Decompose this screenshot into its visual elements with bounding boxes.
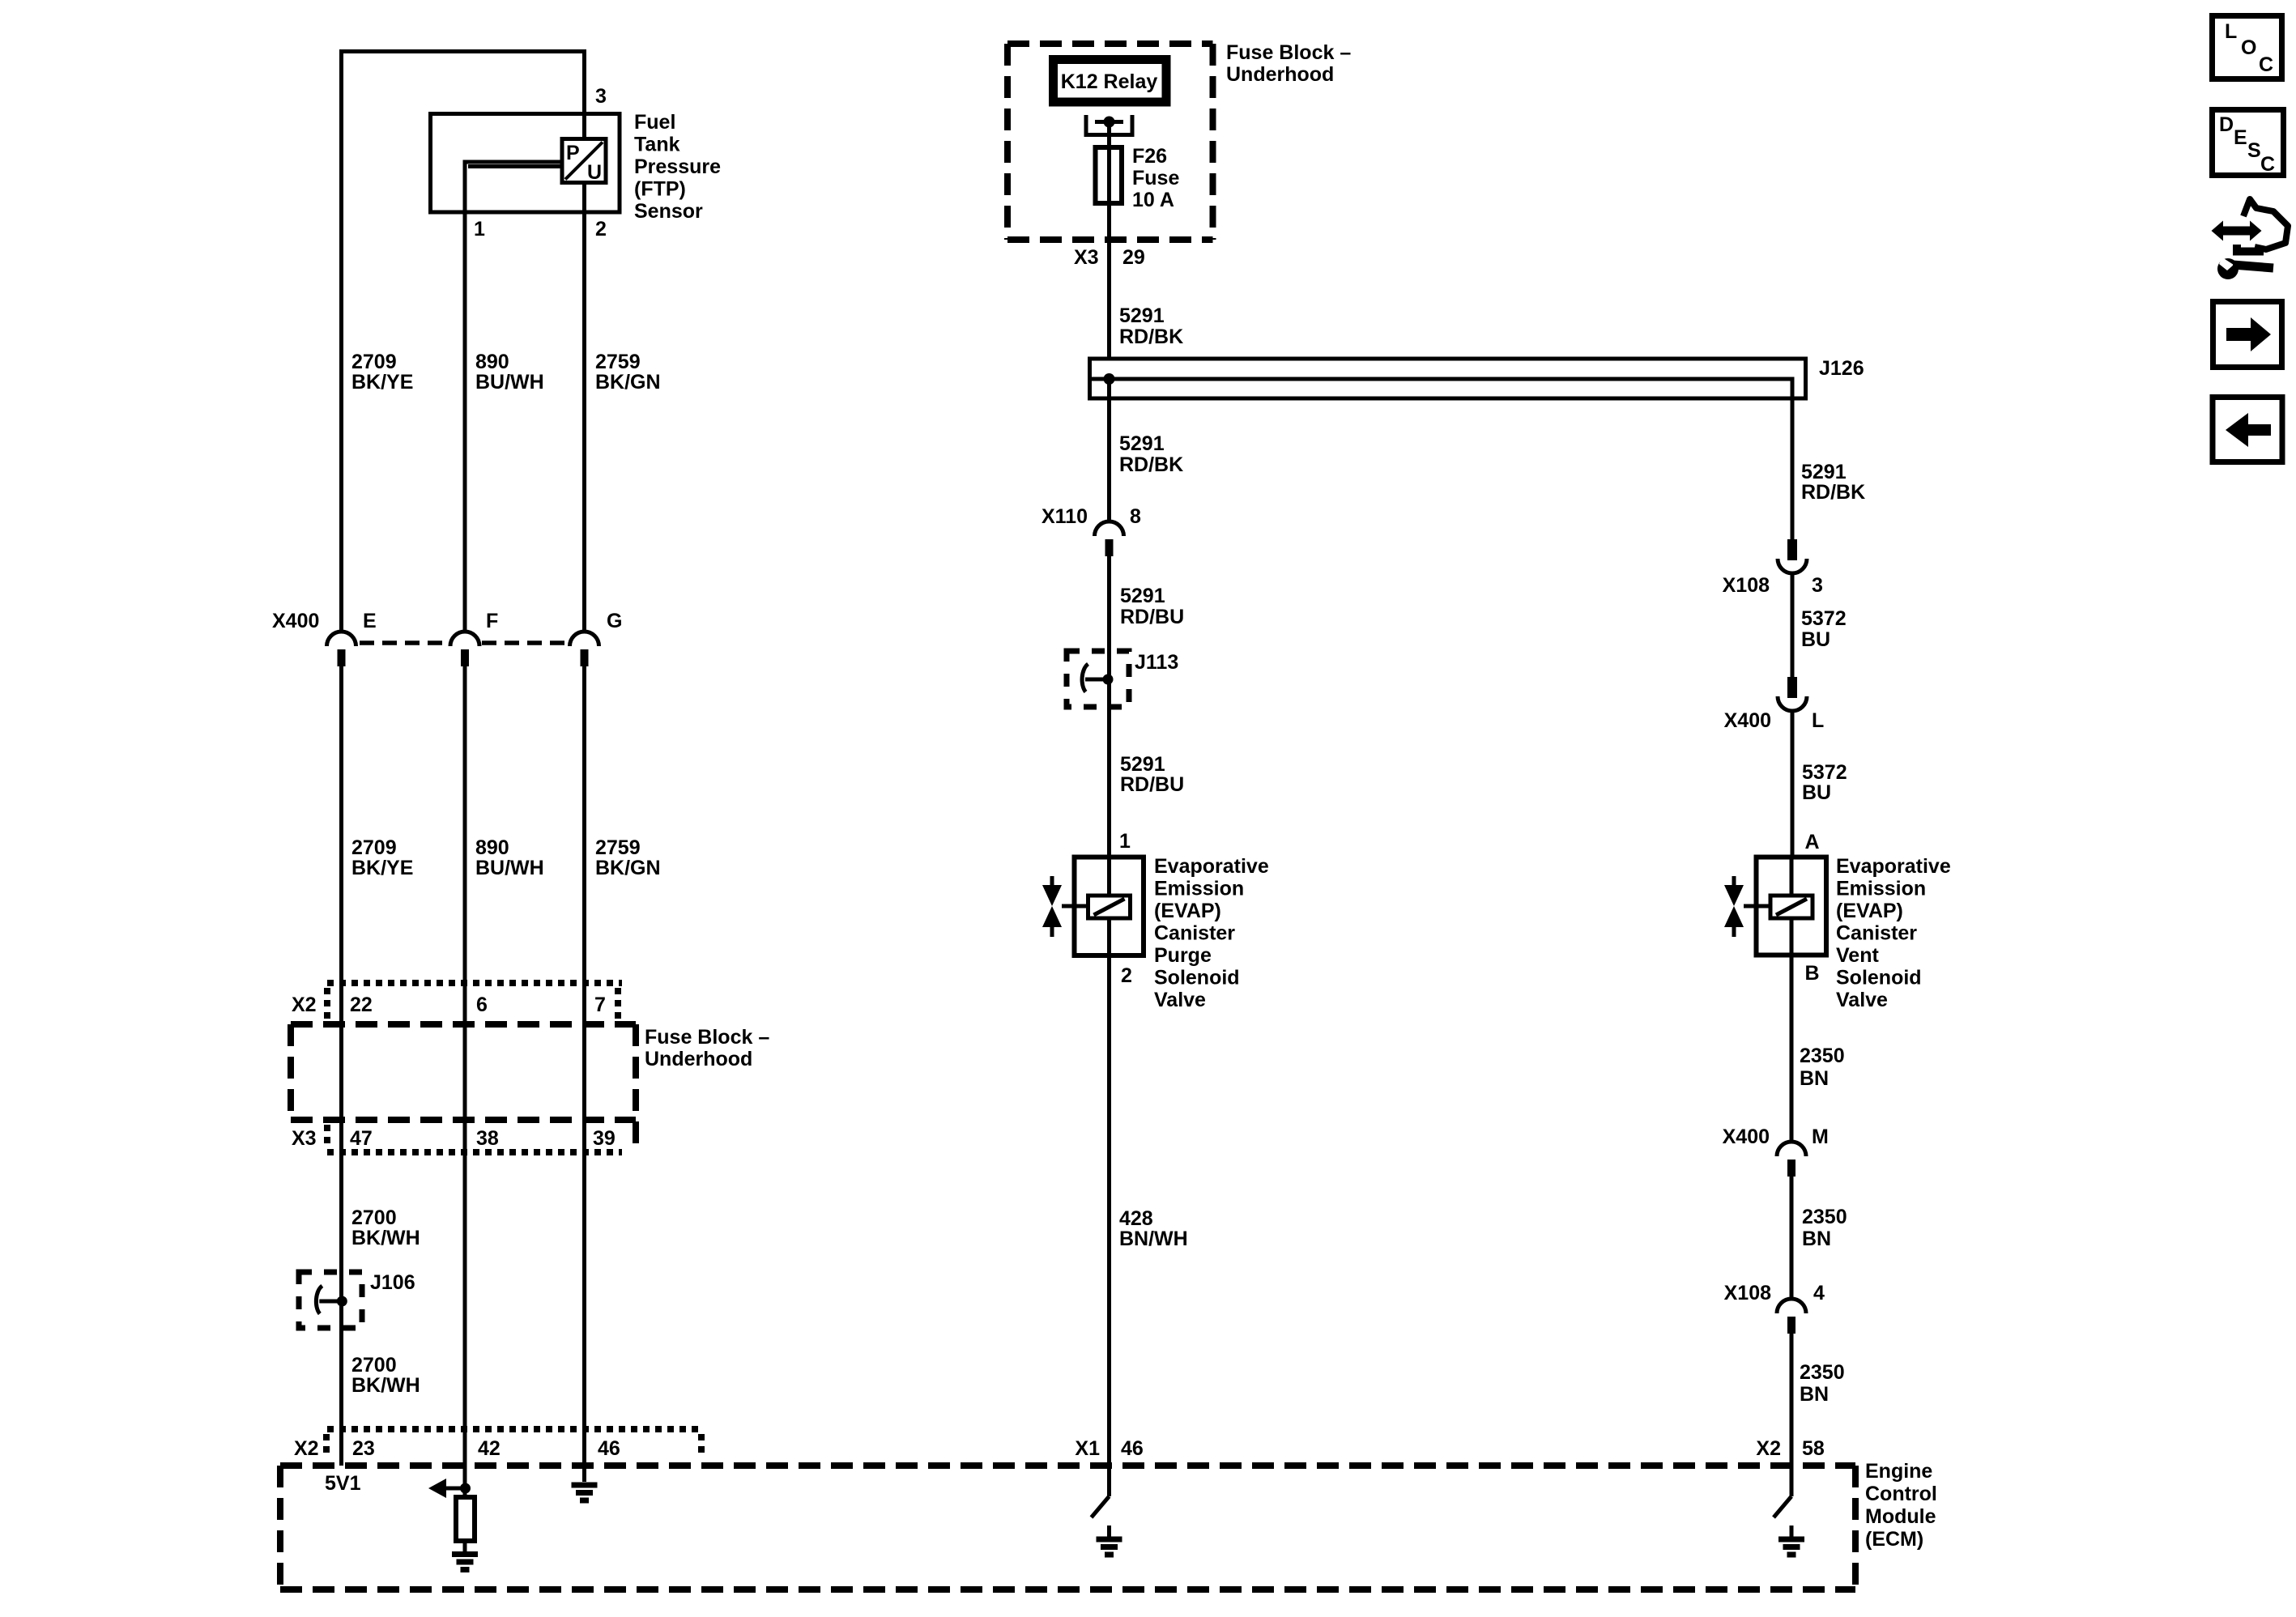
svg-text:(ECM): (ECM) xyxy=(1865,1528,1923,1551)
svg-text:Valve: Valve xyxy=(1154,989,1206,1011)
svg-text:BN: BN xyxy=(1800,1067,1829,1090)
svg-text:Solenoid: Solenoid xyxy=(1154,967,1240,989)
svg-text:Fuse Block –: Fuse Block – xyxy=(1226,41,1351,64)
svg-text:2350: 2350 xyxy=(1802,1206,1847,1228)
svg-text:O: O xyxy=(2241,36,2256,59)
svg-text:Module: Module xyxy=(1865,1505,1936,1528)
svg-text:J106: J106 xyxy=(370,1271,415,1294)
svg-text:22: 22 xyxy=(350,994,373,1016)
svg-text:G: G xyxy=(607,610,622,632)
svg-text:X110: X110 xyxy=(1042,505,1088,528)
svg-text:2709: 2709 xyxy=(351,836,397,859)
svg-text:Solenoid: Solenoid xyxy=(1836,967,1922,989)
svg-text:Canister: Canister xyxy=(1836,922,1917,945)
svg-text:Vent: Vent xyxy=(1836,944,1879,967)
svg-text:BN/WH: BN/WH xyxy=(1119,1228,1188,1250)
svg-text:BK/YE: BK/YE xyxy=(351,857,413,879)
svg-text:X1: X1 xyxy=(1075,1437,1100,1460)
svg-text:K12 Relay: K12 Relay xyxy=(1061,70,1158,93)
svg-text:2759: 2759 xyxy=(595,351,641,373)
svg-text:C: C xyxy=(2259,53,2273,76)
svg-text:29: 29 xyxy=(1122,246,1145,269)
svg-text:X2: X2 xyxy=(294,1437,319,1460)
svg-text:47: 47 xyxy=(350,1127,373,1150)
svg-text:39: 39 xyxy=(593,1127,616,1150)
svg-text:Control: Control xyxy=(1865,1483,1937,1505)
svg-text:BK/WH: BK/WH xyxy=(351,1227,420,1249)
svg-text:BK/GN: BK/GN xyxy=(595,371,661,394)
svg-text:5291: 5291 xyxy=(1120,585,1165,607)
svg-text:Fuse Block –: Fuse Block – xyxy=(645,1026,769,1049)
svg-text:P: P xyxy=(566,142,580,164)
svg-text:BK/YE: BK/YE xyxy=(351,371,413,394)
svg-text:BK/GN: BK/GN xyxy=(595,857,661,879)
svg-text:2700: 2700 xyxy=(351,1354,397,1377)
svg-text:2350: 2350 xyxy=(1800,1361,1845,1384)
svg-text:Valve: Valve xyxy=(1836,989,1888,1011)
svg-text:7: 7 xyxy=(594,994,606,1016)
svg-text:D: D xyxy=(2219,113,2234,136)
svg-text:(FTP): (FTP) xyxy=(634,178,686,201)
svg-text:RD/BK: RD/BK xyxy=(1119,453,1183,476)
svg-text:Underhood: Underhood xyxy=(1226,63,1334,86)
svg-text:E: E xyxy=(363,610,377,632)
svg-text:Evaporative: Evaporative xyxy=(1154,855,1269,878)
svg-text:Engine: Engine xyxy=(1865,1460,1932,1483)
svg-text:58: 58 xyxy=(1802,1437,1825,1460)
svg-text:F26: F26 xyxy=(1132,145,1167,168)
svg-text:5291: 5291 xyxy=(1120,753,1165,776)
svg-text:38: 38 xyxy=(476,1127,499,1150)
svg-text:M: M xyxy=(1812,1126,1829,1148)
svg-text:2: 2 xyxy=(1121,964,1132,987)
svg-text:X400: X400 xyxy=(272,610,319,632)
svg-text:RD/BK: RD/BK xyxy=(1801,481,1865,504)
svg-text:A: A xyxy=(1805,831,1820,853)
svg-text:2700: 2700 xyxy=(351,1206,397,1229)
svg-text:BU: BU xyxy=(1801,628,1830,651)
svg-text:Evaporative: Evaporative xyxy=(1836,855,1951,878)
svg-text:5V1: 5V1 xyxy=(325,1472,361,1495)
svg-text:5372: 5372 xyxy=(1802,761,1847,784)
svg-text:Purge: Purge xyxy=(1154,944,1212,967)
svg-text:BU: BU xyxy=(1802,781,1831,804)
svg-text:C: C xyxy=(2260,153,2275,176)
svg-text:(EVAP): (EVAP) xyxy=(1154,900,1221,922)
svg-text:BN: BN xyxy=(1800,1383,1829,1406)
svg-text:J126: J126 xyxy=(1819,357,1864,380)
svg-text:2709: 2709 xyxy=(351,351,397,373)
svg-text:890: 890 xyxy=(475,351,509,373)
svg-text:Tank: Tank xyxy=(634,134,680,156)
svg-text:BU/WH: BU/WH xyxy=(475,371,544,394)
svg-text:8: 8 xyxy=(1130,505,1141,528)
svg-text:X108: X108 xyxy=(1723,574,1770,597)
svg-text:E: E xyxy=(2234,126,2247,149)
svg-text:Emission: Emission xyxy=(1154,878,1244,900)
svg-text:L: L xyxy=(1812,709,1824,732)
svg-text:(EVAP): (EVAP) xyxy=(1836,900,1903,922)
svg-text:RD/BK: RD/BK xyxy=(1119,326,1183,348)
svg-text:10 A: 10 A xyxy=(1132,189,1174,211)
svg-text:BN: BN xyxy=(1802,1228,1831,1250)
svg-text:J113: J113 xyxy=(1135,651,1178,674)
svg-text:3: 3 xyxy=(595,85,607,108)
svg-text:X2: X2 xyxy=(292,994,317,1016)
svg-text:S: S xyxy=(2247,139,2261,162)
svg-text:5372: 5372 xyxy=(1801,607,1847,630)
svg-text:Fuel: Fuel xyxy=(634,111,675,134)
svg-text:BU/WH: BU/WH xyxy=(475,857,544,879)
svg-text:6: 6 xyxy=(476,994,488,1016)
svg-text:X108: X108 xyxy=(1724,1282,1771,1304)
svg-text:2: 2 xyxy=(595,218,607,240)
svg-text:42: 42 xyxy=(478,1437,501,1460)
svg-text:X400: X400 xyxy=(1723,1126,1770,1148)
svg-text:Fuse: Fuse xyxy=(1132,167,1179,189)
svg-text:3: 3 xyxy=(1812,574,1823,597)
svg-text:1: 1 xyxy=(474,218,485,240)
svg-text:Sensor: Sensor xyxy=(634,200,703,223)
svg-text:46: 46 xyxy=(598,1437,620,1460)
svg-text:X3: X3 xyxy=(292,1127,317,1150)
svg-text:428: 428 xyxy=(1119,1207,1153,1230)
svg-text:23: 23 xyxy=(352,1437,375,1460)
svg-text:4: 4 xyxy=(1813,1282,1825,1304)
svg-text:2759: 2759 xyxy=(595,836,641,859)
svg-text:X3: X3 xyxy=(1074,246,1099,269)
svg-text:BK/WH: BK/WH xyxy=(351,1374,420,1397)
svg-text:L: L xyxy=(2225,20,2237,43)
svg-text:RD/BU: RD/BU xyxy=(1120,773,1184,796)
svg-text:X400: X400 xyxy=(1724,709,1771,732)
svg-text:2350: 2350 xyxy=(1800,1045,1845,1067)
svg-text:Canister: Canister xyxy=(1154,922,1235,945)
svg-text:Emission: Emission xyxy=(1836,878,1926,900)
svg-text:RD/BU: RD/BU xyxy=(1120,606,1184,628)
svg-text:U: U xyxy=(587,161,602,184)
svg-text:5291: 5291 xyxy=(1119,304,1165,327)
svg-text:B: B xyxy=(1805,962,1820,985)
svg-text:5291: 5291 xyxy=(1119,432,1165,455)
svg-text:1: 1 xyxy=(1119,830,1131,853)
svg-text:X2: X2 xyxy=(1756,1437,1781,1460)
svg-text:Underhood: Underhood xyxy=(645,1048,752,1070)
svg-text:890: 890 xyxy=(475,836,509,859)
svg-text:46: 46 xyxy=(1121,1437,1144,1460)
svg-text:Pressure: Pressure xyxy=(634,155,721,178)
svg-text:F: F xyxy=(486,610,498,632)
svg-text:5291: 5291 xyxy=(1801,461,1847,483)
